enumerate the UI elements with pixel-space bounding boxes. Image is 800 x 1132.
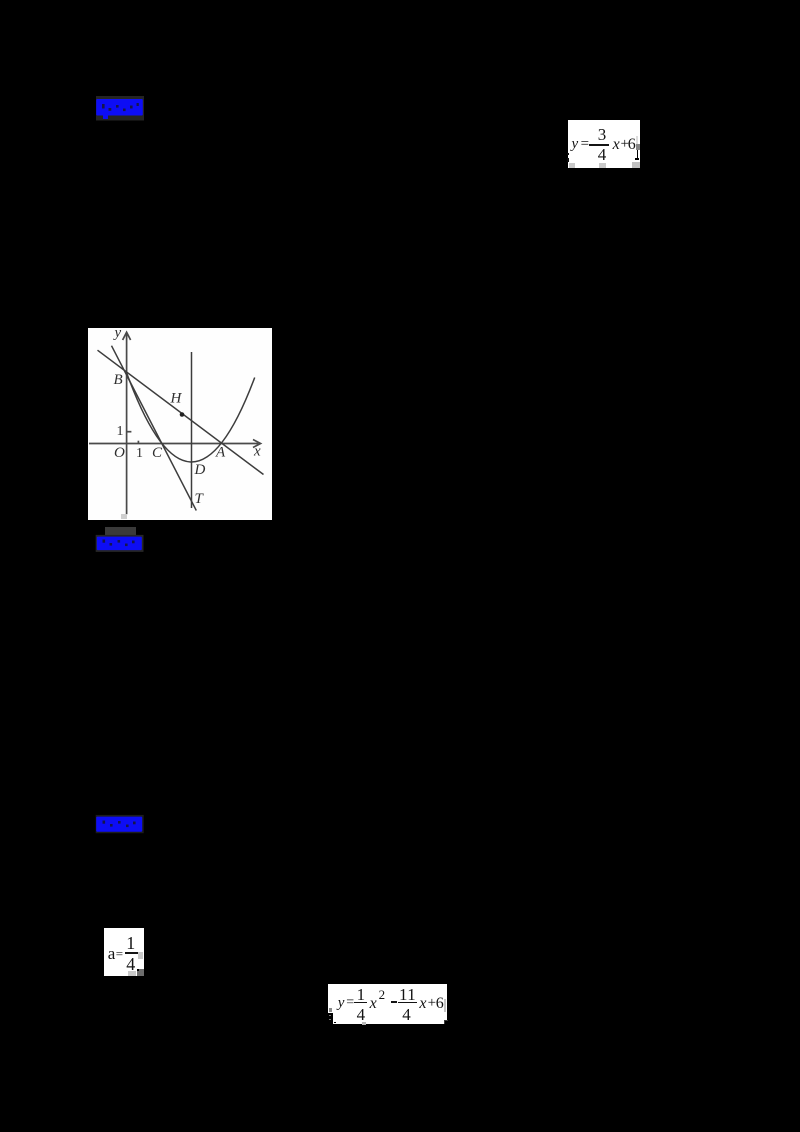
line BT <box>112 345 197 510</box>
parabola <box>127 372 255 461</box>
figure: parabola + lines graph <box>88 328 272 520</box>
eq3 selection handles <box>444 999 447 1012</box>
equation image 2: a = 1/4 <box>104 928 144 976</box>
equation image 1: y = 3/4 x + 6 <box>568 120 640 168</box>
svg-text:H: H <box>170 390 183 406</box>
labels <box>113 325 262 507</box>
label tag 3 <box>95 814 145 834</box>
axis of symmetry <box>191 352 193 508</box>
eq1 selection handles <box>569 163 576 167</box>
label tag 2 <box>95 534 145 553</box>
small gray handle at figure bottom <box>121 514 128 520</box>
svg-text:O: O <box>114 445 125 461</box>
svg-text:x: x <box>253 443 261 459</box>
svg-text:1: 1 <box>117 424 124 439</box>
svg-text:D: D <box>194 462 206 478</box>
eq2 selection handles <box>138 952 143 959</box>
svg-text:A: A <box>215 444 226 460</box>
line AB <box>98 350 264 474</box>
point dot <box>180 412 185 417</box>
equation image 3: y = 1/4 x^2 - 11/4 x + 6 <box>328 984 448 1024</box>
svg-text:B: B <box>114 371 123 387</box>
svg-text:C: C <box>152 445 163 461</box>
ticks <box>127 430 132 432</box>
y-axis <box>89 332 261 514</box>
dark corner overlap at eq3 bottom-left <box>328 1013 334 1024</box>
svg-text:1: 1 <box>136 446 143 461</box>
tiny dark marks at eq1 left edge <box>567 153 569 155</box>
small gray box above label 2 <box>105 527 137 535</box>
svg-text:y: y <box>113 328 122 341</box>
label tag 1 (blue bold CJK on dark box) <box>95 95 145 122</box>
x-axis <box>89 442 259 444</box>
